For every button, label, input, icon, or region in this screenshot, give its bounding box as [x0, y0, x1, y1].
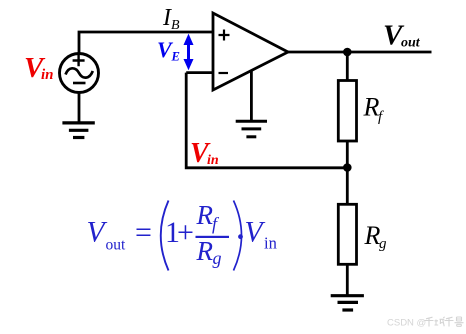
ground (below R_g)	[331, 296, 364, 310]
svg-text:in: in	[207, 153, 219, 168]
wire feedback: down from inverting input and right to node	[186, 73, 347, 168]
wire from op-amp ground tap	[250, 71, 253, 121]
watermark hanzi approximation	[425, 317, 464, 327]
ground (below op-amp)	[236, 121, 267, 137]
node junction at output	[343, 48, 352, 57]
ground (below source)	[62, 123, 94, 138]
svg-text:g: g	[213, 248, 222, 268]
svg-text:CSDN @: CSDN @	[387, 318, 426, 329]
label R_f	[363, 93, 385, 126]
label R_g	[364, 221, 388, 252]
svg-text:R: R	[196, 236, 214, 266]
svg-text:out: out	[401, 36, 421, 51]
svg-text:E: E	[171, 50, 180, 64]
svg-text:B: B	[171, 18, 180, 33]
svg-text:in: in	[264, 234, 277, 253]
resistor R_f	[338, 81, 356, 142]
label V_out	[383, 20, 421, 52]
formula V_out = (1 + R_f/R_g) * V_in (blue)	[87, 200, 277, 271]
label I_B	[162, 5, 180, 33]
label V_in (source), red	[24, 52, 54, 84]
svg-text:=: =	[135, 216, 152, 249]
watermark CSDN	[387, 317, 464, 329]
formula: fraction bar	[196, 236, 230, 238]
wire op-amp output to V_out	[288, 51, 432, 54]
V_E measurement arrow (blue, double headed)	[184, 34, 194, 71]
formula: right parenthesis	[234, 201, 242, 271]
label V_in (feedback, red)	[190, 138, 219, 169]
formula: bullet	[238, 234, 243, 239]
wire R_f to node	[346, 141, 349, 168]
svg-text:R: R	[364, 221, 381, 250]
op-amp U1	[213, 13, 288, 90]
wire op-amp inverting input stub	[186, 71, 213, 74]
wire from source top to op-amp non-inverting input	[79, 32, 213, 54]
node junction feedback	[343, 163, 352, 172]
svg-text:in: in	[41, 67, 54, 83]
wire node to R_g	[346, 168, 349, 205]
formula: left parenthesis	[161, 201, 169, 271]
svg-text:+: +	[177, 216, 194, 249]
svg-text:out: out	[106, 237, 127, 254]
wire from source bottom to ground	[78, 92, 81, 122]
svg-text:R: R	[196, 200, 214, 230]
wire output node to R_f	[346, 52, 349, 81]
svg-text:g: g	[379, 236, 387, 252]
voltage source V1	[60, 54, 99, 93]
svg-text:R: R	[363, 93, 380, 122]
label V_E (blue)	[157, 37, 180, 64]
wire R_g to ground	[346, 264, 349, 295]
resistor R_g	[338, 204, 356, 264]
